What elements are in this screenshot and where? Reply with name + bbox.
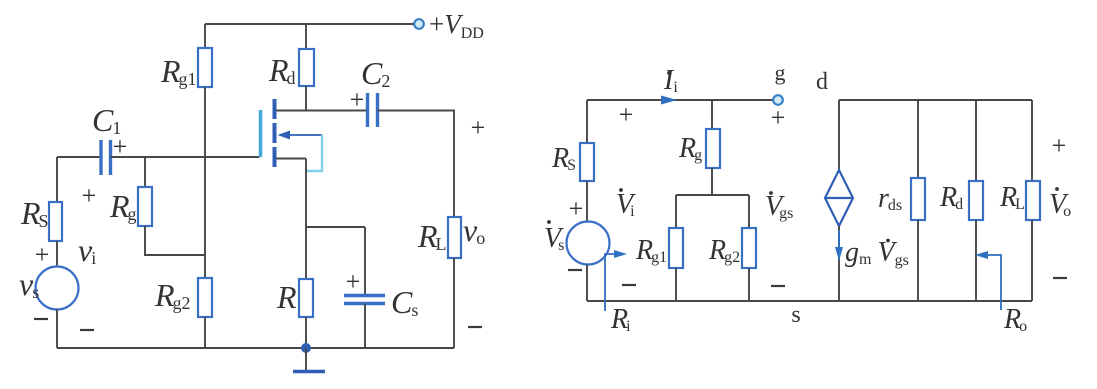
resistor RL right: [1026, 181, 1040, 220]
wire Cs branch horizontal: [306, 226, 365, 228]
wire mosfet source lead: [276, 158, 306, 160]
mosfet body loop wire: [306, 135, 322, 171]
resistor RL: [448, 217, 461, 258]
mosfet channel dashes: [273, 99, 277, 167]
source vs circle: [36, 267, 79, 310]
svg-text:s: s: [791, 302, 800, 328]
wire RL top lead right: [1031, 100, 1033, 181]
label - of Vs: [568, 269, 582, 271]
wire Rg bottom to divider: [145, 226, 205, 255]
dot of Vi: [619, 188, 623, 192]
svg-text:+: +: [619, 100, 634, 129]
wire Rg1 bottom lead right: [675, 268, 677, 301]
resistor rds: [911, 178, 925, 220]
wire Rg1-Rg2 divider vertical: [204, 87, 206, 278]
wire Rg top lead right: [711, 100, 713, 129]
resistor Rd right: [969, 181, 983, 220]
wire Rd bottom lead right: [975, 220, 977, 301]
wire Rd top lead right: [975, 100, 977, 181]
resistor Rd: [299, 49, 314, 86]
capacitor Cs: [344, 296, 385, 304]
wire left branch top: [586, 100, 588, 143]
wire RS to Vs: [586, 181, 588, 222]
label - of Vo: [1053, 277, 1067, 279]
label - of Vi: [622, 284, 636, 286]
wire vs to bottom rail: [56, 310, 58, 349]
wire divider split horizontal: [676, 194, 749, 196]
wire rds bottom lead: [917, 220, 919, 301]
arrow Ro: [975, 251, 1001, 310]
resistor RS right: [580, 143, 594, 181]
svg-text:Vi: Vi: [616, 189, 636, 220]
wire Cs top lead: [364, 227, 366, 294]
wire Rg2 bottom lead right: [748, 268, 750, 301]
mosfet body arrow: [278, 131, 323, 140]
resistor Rg2: [198, 278, 212, 317]
capacitor C1: [101, 140, 111, 175]
wire gate wire C1 to MOSFET: [111, 156, 260, 158]
dependent source diamond: [825, 170, 853, 226]
svg-text:+: +: [771, 103, 786, 132]
wire RL bottom lead right: [1031, 220, 1033, 301]
svg-text:+: +: [35, 240, 50, 269]
dot of Vgs: [769, 191, 773, 195]
wire Cs bottom lead: [364, 304, 366, 349]
svg-text:+: +: [569, 194, 584, 223]
source Vs circle: [567, 222, 610, 265]
wire Rd bottom lead: [305, 86, 307, 111]
wire Rd top lead: [305, 24, 307, 49]
wire bottom rail right circuit: [587, 300, 1032, 302]
wire d-node top rail: [839, 99, 1032, 101]
wire g-node top rail: [587, 99, 774, 101]
wire drain node to C2: [276, 110, 367, 112]
current arrow Ii: [661, 96, 677, 105]
wire source vertical: [305, 159, 307, 280]
wire Rg bottom lead right: [711, 168, 713, 195]
ground: [293, 370, 325, 374]
svg-text:+: +: [346, 267, 361, 296]
dot of Vo: [1055, 187, 1059, 191]
label - of vo: [468, 326, 482, 328]
wire Rg2 top lead right: [748, 195, 750, 228]
svg-text:+: +: [1052, 131, 1067, 160]
wire rds top lead: [917, 100, 919, 178]
resistor Rg2 right: [742, 228, 756, 268]
wire Rg2 bottom lead: [204, 317, 206, 348]
wire RL bottom lead: [453, 258, 455, 348]
resistor R: [299, 279, 313, 317]
wire Vs to bottom rail: [586, 265, 588, 302]
dot of gmVgs: [886, 239, 890, 243]
wire C1 left lead: [57, 156, 101, 158]
terminal +VDD circle: [414, 19, 424, 29]
svg-text:R: R: [276, 279, 297, 315]
resistor RS: [49, 202, 62, 241]
svg-text:d: d: [816, 69, 828, 95]
wire mosfet drain lead: [276, 110, 306, 112]
resistor Rg1 right: [669, 228, 683, 268]
dot of Vs: [547, 220, 551, 224]
terminal g circle: [773, 95, 783, 105]
wire diamond bottom lead: [838, 226, 840, 301]
resistor Rg1: [198, 48, 212, 87]
wire left source branch top: [56, 157, 58, 202]
wire top rail: [205, 23, 414, 25]
svg-text:+: +: [471, 113, 486, 142]
label - of vs: [34, 318, 48, 320]
svg-text:+: +: [350, 85, 365, 114]
resistor Rg: [138, 187, 152, 226]
capacitor C2: [368, 93, 378, 127]
dot of Ii: [667, 71, 671, 75]
junction dot bottom: [301, 343, 311, 353]
wire ground stem: [305, 348, 307, 371]
resistor Rg right: [706, 129, 720, 168]
svg-text:g: g: [775, 60, 786, 85]
wire R bottom lead: [305, 317, 307, 348]
wire Rg1 top lead right: [675, 195, 677, 228]
svg-text:+: +: [82, 181, 97, 210]
wire C2 to RL branch: [378, 111, 455, 218]
current arrow gmVgs: [835, 230, 843, 261]
wire Rg1 top lead: [204, 24, 206, 48]
mosfet gate bar: [259, 110, 263, 157]
wire diamond top lead: [838, 100, 840, 170]
wire RS to vs source: [56, 241, 58, 267]
label - of Vgs: [771, 285, 785, 287]
label - of vi: [80, 329, 94, 331]
wire bottom rail: [57, 347, 454, 349]
arrow Ri: [605, 250, 627, 311]
wire Rg branch vertical top: [144, 157, 146, 187]
svg-text:Ri: Ri: [610, 304, 631, 335]
